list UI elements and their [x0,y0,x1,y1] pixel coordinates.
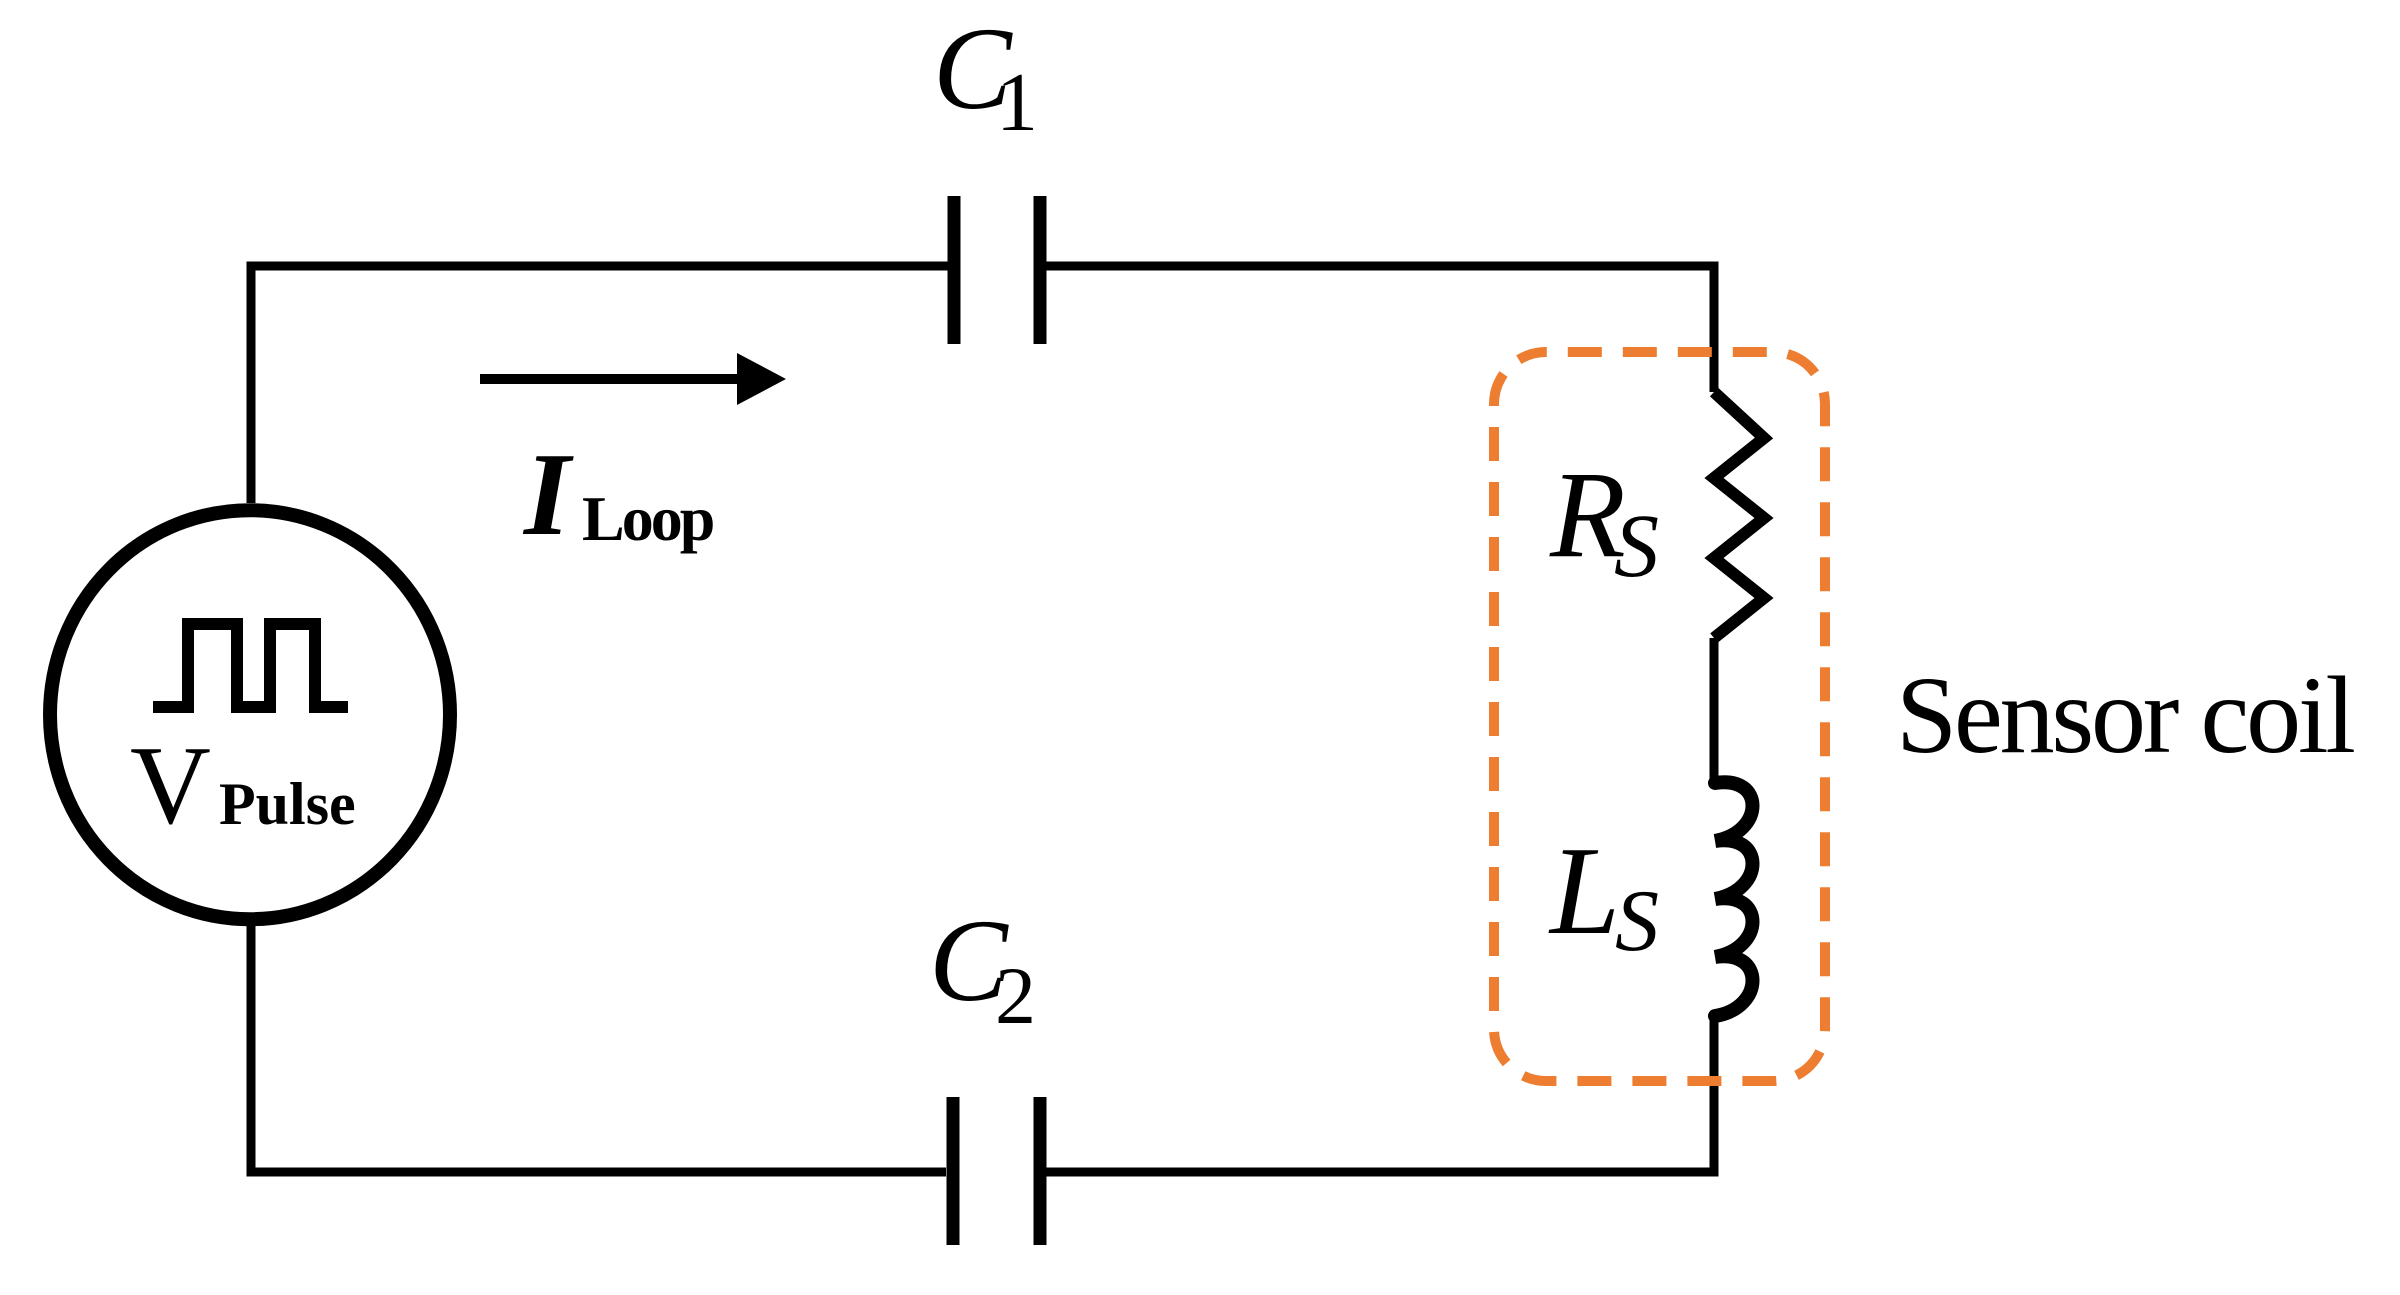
current arrow shaft [480,374,744,384]
svg-text:Pulse: Pulse [219,771,356,837]
svg-text:L: L [1548,822,1620,961]
svg-text:S: S [1615,873,1659,970]
pulse waveform symbol inside source [153,624,348,707]
sensor coil dashed outline box [1494,352,1825,1081]
wire bottom-right: bottom wire from C2 right plate + right vertical up to inductor [1046,1016,1714,1172]
svg-text:Loop: Loop [582,483,713,554]
svg-text:V: V [130,724,211,848]
inductor LS coil [1715,782,1753,1016]
capacitor C2 plates [953,1097,1040,1245]
voltage source VPulse circle [50,510,450,919]
wire top-right: top wire from C1 right plate + right vertical down to resistor [1046,266,1714,392]
svg-text:1: 1 [996,56,1038,149]
capacitor C1 plates [954,196,1040,344]
svg-text:Sensor coil: Sensor coil [1896,654,2354,776]
svg-text:I: I [522,428,574,560]
svg-text:2: 2 [995,950,1036,1041]
resistor RS zigzag [1714,392,1764,638]
wire top-left: left vertical upper segment + top wire to C1 left plate [251,266,948,503]
wire bottom-left: left vertical lower segment + bottom wire to C2 left plate [251,926,946,1172]
current arrow head [737,353,786,405]
wire right middle: between resistor bottom and inductor top [1710,638,1719,783]
svg-text:S: S [1614,497,1659,596]
